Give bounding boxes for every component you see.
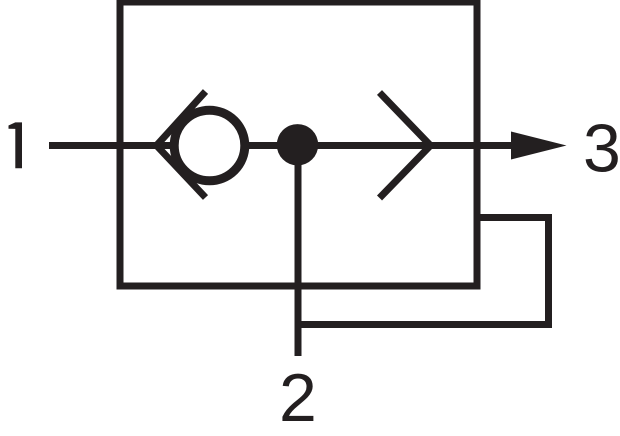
svg-text:3: 3 (583, 111, 620, 187)
svg-text:2: 2 (279, 360, 317, 436)
valve body enclosure box (120, 2, 477, 286)
check valve ball (circle) (174, 110, 245, 181)
port label 1 (9, 122, 23, 168)
wire: main flow line from port 1 to port 3 (49, 142, 545, 149)
node: junction dot (277, 124, 318, 165)
arrowhead at port 3 (511, 132, 567, 160)
check valve seat (V arms) (157, 92, 206, 198)
wire: pilot line from box right edge down to port 2 line (295, 218, 549, 325)
wire: vertical line from junction to port 2 (295, 145, 302, 356)
throttle chevron arrow (380, 93, 431, 199)
